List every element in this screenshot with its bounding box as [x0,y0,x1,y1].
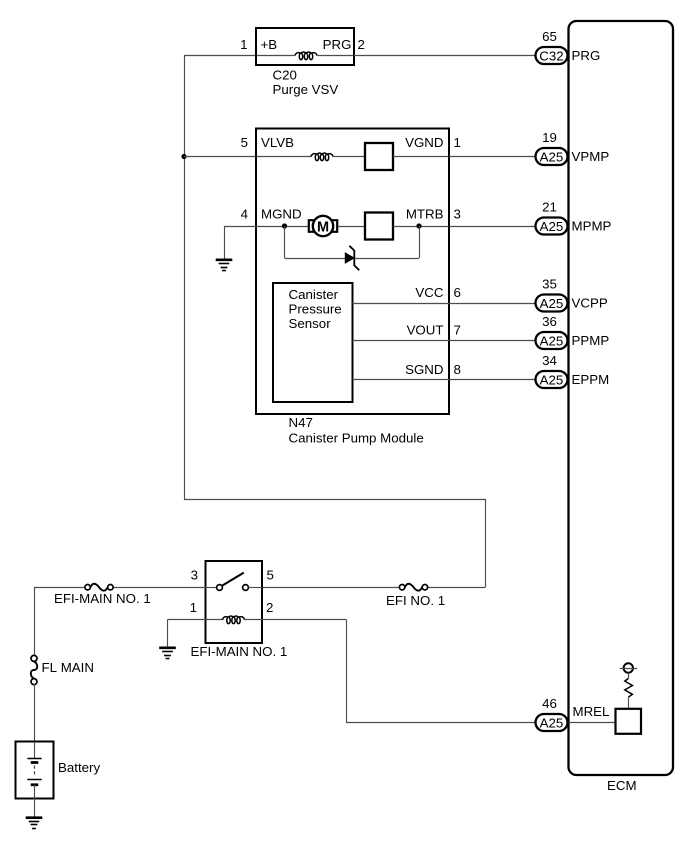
svg-text:VOUT: VOUT [407,323,444,338]
svg-text:PRG: PRG [323,37,352,52]
ground symbol MGND [216,260,233,271]
svg-text:6: 6 [454,285,461,300]
pin VOUT label [407,323,444,338]
wire VLVB to coil [257,156,312,158]
svg-text:1: 1 [240,37,247,52]
svg-text:VPMP: VPMP [572,149,610,164]
node A junction on feed bus at VLVB row [181,154,186,159]
wire MTRB pin to ECM MPMP [449,226,536,228]
svg-text:Purge VSV: Purge VSV [273,82,339,97]
svg-text:VCPP: VCPP [572,296,608,311]
ground symbol relay coil [159,648,176,659]
pin VGND label [405,135,443,150]
svg-text:3: 3 [191,568,198,583]
label Purge VSV [273,82,339,97]
driver square VGND [365,143,393,170]
wire driver square to MTRB pin [393,226,448,228]
svg-text:46: 46 [542,696,557,711]
svg-text:EFI-MAIN NO. 1: EFI-MAIN NO. 1 [54,591,151,606]
battery plate short bottom [31,783,39,786]
battery plate long bottom [27,779,41,781]
svg-text:7: 7 [454,323,461,338]
svg-text:34: 34 [542,353,557,368]
pin SGND label [405,362,443,377]
pin VLVB label [261,135,294,150]
label PPMP ECM [572,333,610,348]
wire battery column upper [34,588,36,657]
svg-text:MREL: MREL [573,704,610,719]
svg-text:Battery: Battery [58,760,100,775]
wire VGND pin to ECM VPMP [449,156,536,158]
wire battery internal top [34,742,36,759]
svg-text:MPMP: MPMP [572,219,612,234]
svg-text:A25: A25 [540,373,564,388]
battery plate short top [31,761,39,764]
relay coil [206,616,263,624]
fuse EFI NO. 1 [399,584,427,591]
resistor pull-up in ECM [625,679,633,698]
pin 2 label purge VSV [358,37,365,52]
svg-text:3: 3 [454,207,461,222]
svg-text:5: 5 [241,135,248,150]
label Sensor [289,316,332,331]
wire to ECM MREL [346,722,536,724]
svg-text:Pressure: Pressure [289,302,342,317]
wire motor to driver square [338,226,365,228]
ECM box [569,21,674,775]
wire battery column lower [34,684,36,742]
wire inside purge VSV right [318,55,354,57]
pin 5 label relay [267,568,274,583]
svg-text:A25: A25 [540,150,564,165]
svg-text:19: 19 [542,130,557,145]
wire bypass right riser [419,226,421,258]
relay EFI-MAIN NO.1 box [206,561,263,643]
wire feed bus bottom horizontal [184,499,485,501]
wire MREL into ECM [568,722,616,724]
wire battery internal bottom [34,785,36,817]
wire ground riser MGND [224,226,226,259]
label VPMP ECM [572,149,610,164]
battery feed symbol in ECM [620,663,638,672]
svg-text:8: 8 [454,362,461,377]
svg-text:A25: A25 [540,219,564,234]
wire SGND sensor to ECM EPPM [353,379,537,381]
svg-text:+B: +B [261,37,278,52]
driver square MREL in ECM [616,709,642,734]
wire VOUT sensor to ECM PPMP [353,340,537,342]
pin +B label [261,37,278,52]
connector A25 pin 21 MPMP [536,200,568,235]
svg-text:21: 21 [542,200,557,215]
wire coil to driver square [333,156,366,158]
label EFI-MAIN NO. 1 relay [191,644,288,659]
svg-text:FL MAIN: FL MAIN [42,660,94,675]
wire +B feed from node A to Purge VSV pin 1 [184,55,256,57]
connector C32 pin 65 PRG [536,29,568,64]
coil solenoid of purge VSV [295,52,317,60]
pin 3 label relay [191,568,198,583]
node junction MGND bypass [282,223,287,228]
label EPPM ECM [572,372,610,387]
svg-text:35: 35 [542,277,557,292]
wire VCC sensor to ECM VCPP [353,303,537,305]
svg-text:SGND: SGND [405,362,443,377]
wire resistor to driver square [628,698,630,709]
svg-text:Canister: Canister [289,287,339,302]
svg-text:36: 36 [542,314,557,329]
svg-text:1: 1 [454,135,461,150]
zener diode bypass [345,246,359,270]
connector A25 pin 36 PPMP [536,314,568,349]
svg-text:A25: A25 [540,296,564,311]
battery dashed middle [34,766,36,777]
wire VLVB feed to pin 5 [184,156,257,158]
svg-text:A25: A25 [540,716,564,731]
svg-text:C32: C32 [539,49,563,64]
pin MTRB label [406,207,444,222]
svg-text:Canister Pump Module: Canister Pump Module [289,431,424,446]
svg-text:EFI-MAIN NO. 1: EFI-MAIN NO. 1 [191,644,288,659]
svg-text:PPMP: PPMP [572,333,610,348]
canister pump module N47 box [256,129,449,415]
svg-text:MTRB: MTRB [406,207,444,222]
svg-text:4: 4 [241,207,248,222]
connector A25 pin 46 MREL [536,696,568,731]
pin 5 label module [241,135,248,150]
wire bypass bottom right [355,258,420,260]
relay switch contact [206,573,263,591]
connector A25 pin 35 VCPP [536,277,568,312]
svg-text:PRG: PRG [572,48,601,63]
ground symbol battery [26,818,43,829]
label EFI NO. 1 [386,593,445,608]
connector A25 pin 34 EPPM [536,353,568,388]
pin 7 label module [454,323,461,338]
pin 4 label module [241,207,248,222]
pin 1 label module [454,135,461,150]
svg-text:MGND: MGND [261,207,302,222]
svg-text:65: 65 [542,29,557,44]
pin VCC label [415,285,443,300]
driver square MTRB [365,213,393,240]
label N47 [289,415,313,430]
svg-text:A25: A25 [540,334,564,349]
label Battery [58,760,100,775]
wire feed symbol to resistor [628,673,630,679]
wire purge VSV pin 2 to ECM PRG [354,55,536,57]
svg-text:VCC: VCC [415,285,443,300]
svg-text:VGND: VGND [405,135,443,150]
wire relay pin 1 to ground [168,620,206,648]
svg-text:VLVB: VLVB [261,135,294,150]
label PRG ECM [572,48,601,63]
label ECM [607,778,637,793]
wire left vertical bus (battery feed) [184,56,186,500]
wire bypass bottom left [285,258,346,260]
label C20 [273,68,297,83]
wire relay pin 2 riser [346,620,348,723]
battery box [16,742,54,799]
svg-text:ECM: ECM [607,778,637,793]
connector A25 pin 19 VPMP [536,130,568,165]
svg-text:C20: C20 [273,68,297,83]
wire inside purge VSV left [257,55,295,57]
svg-text:1: 1 [190,600,197,615]
canister pressure sensor box [273,283,353,402]
pin 3 label module [454,207,461,222]
node junction MTRB bypass [416,223,421,228]
purge VSV C20 box [256,28,354,65]
label VCPP ECM [572,296,608,311]
pin PRG label [323,37,352,52]
battery plate long top [27,758,41,760]
label MPMP ECM [572,219,612,234]
pin 1 label relay [190,600,197,615]
svg-text:EPPM: EPPM [572,372,610,387]
label Canister Pump Module [289,431,424,446]
wire feed riser to EFI NO.1 fuse row [485,499,487,588]
wire fuse to relay pin 5 [262,587,399,589]
wire MGND inside to motor [257,226,308,228]
label FL MAIN [42,660,94,675]
label Pressure [289,302,342,317]
fusible link FL MAIN [31,655,37,684]
wire fuse to battery column [34,587,85,589]
wire MGND pin to ground riser [224,226,257,228]
svg-text:2: 2 [358,37,365,52]
svg-text:5: 5 [267,568,274,583]
pin 6 label module [454,285,461,300]
wire driver square to VGND pin [393,156,448,158]
svg-text:M: M [317,219,329,235]
wire relay pin 3 to fuse [114,587,206,589]
label EFI-MAIN NO. 1 fuse [54,591,151,606]
pin 8 label module [454,362,461,377]
fuse EFI-MAIN NO. 1 [85,584,113,591]
label Canister [289,287,339,302]
svg-text:Sensor: Sensor [289,316,332,331]
pin 2 label relay [266,600,273,615]
pin MGND label [261,207,302,222]
svg-text:2: 2 [266,600,273,615]
wire EFI NO.1 row right segment [428,587,485,589]
wire bypass left riser [284,226,286,258]
label MREL [573,704,610,719]
svg-text:EFI NO. 1: EFI NO. 1 [386,593,445,608]
pin 1 label purge VSV [240,37,247,52]
wire relay pin 2 horizontal [262,619,346,621]
motor M of canister pump [309,216,337,236]
svg-text:N47: N47 [289,415,313,430]
coil vent valve solenoid [311,153,333,161]
